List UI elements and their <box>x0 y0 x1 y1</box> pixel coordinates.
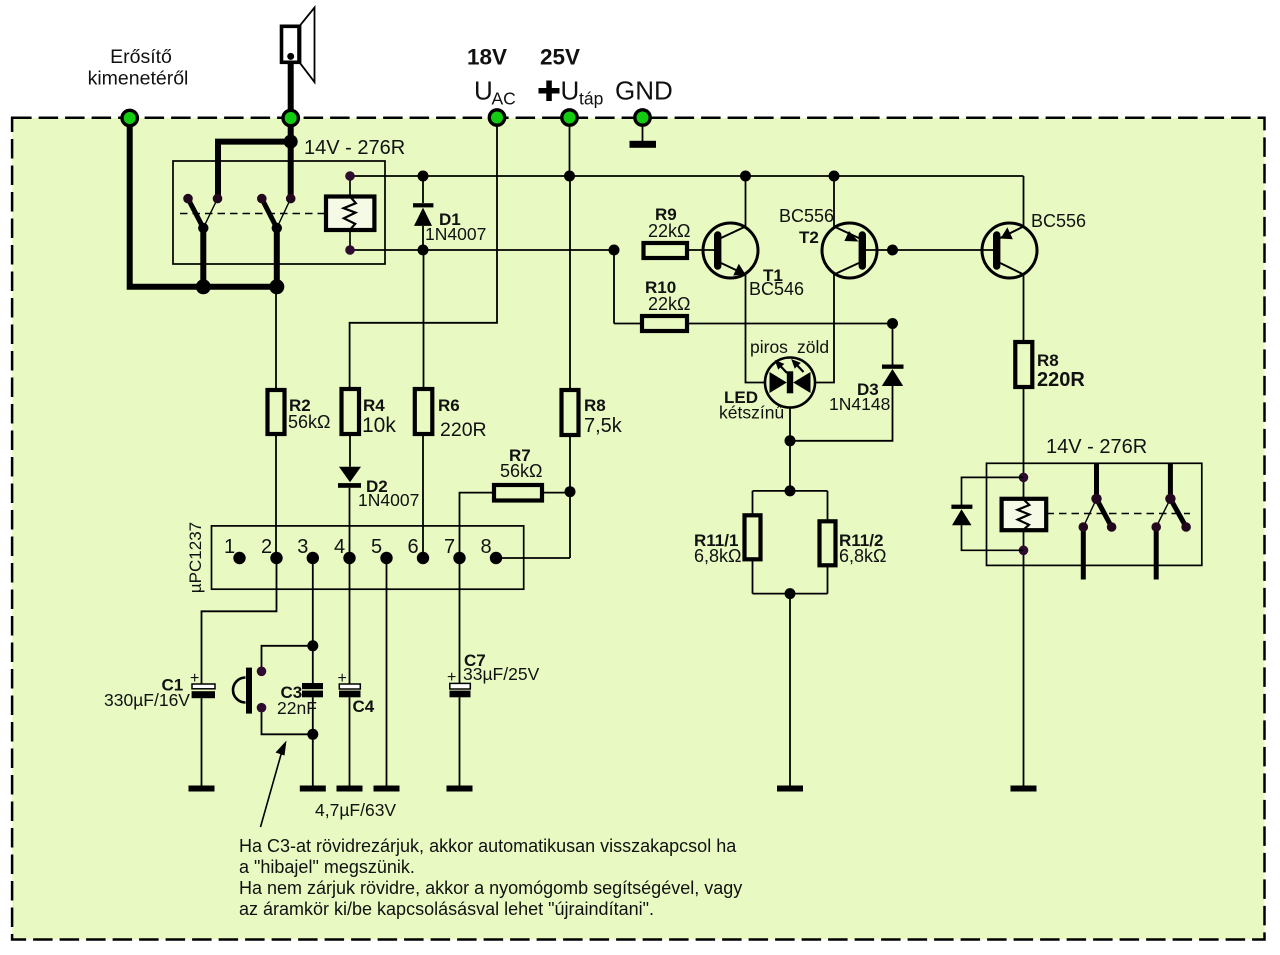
node R11 top <box>785 485 796 496</box>
svg-text:piros: piros <box>750 337 788 357</box>
node D3 top <box>887 318 898 329</box>
svg-text:táp: táp <box>579 89 603 109</box>
svg-text:10k: 10k <box>362 414 396 437</box>
ground LED net <box>777 786 803 792</box>
svg-text:14V - 276R: 14V - 276R <box>304 137 405 159</box>
svg-text:Ha nem zárjuk rövidre, akkor a: Ha nem zárjuk rövidre, akkor a nyomógomb… <box>239 878 742 898</box>
wire coil1 bottom lead <box>349 230 351 250</box>
diode D2 1N4007 <box>338 467 419 510</box>
svg-text:2: 2 <box>261 536 272 558</box>
svg-text:µPC1237: µPC1237 <box>186 522 205 593</box>
switch SW1a arm <box>188 199 203 228</box>
resistor R8b 7.5k <box>562 390 579 435</box>
wire R11 bottom branch <box>753 593 828 595</box>
pin 7 <box>453 552 465 564</box>
svg-text:22nF: 22nF <box>277 698 317 718</box>
wire coil1 bottom rail <box>350 249 614 251</box>
relay RE1 box <box>173 161 385 264</box>
svg-text:R4: R4 <box>363 396 385 415</box>
wire R7 left lead <box>460 493 495 558</box>
svg-text:330µF/16V: 330µF/16V <box>104 690 190 710</box>
switch SW1a contacts <box>183 194 193 204</box>
pin 4 <box>343 552 355 564</box>
wire T2 base to node <box>866 249 893 251</box>
wire R7 right lead <box>542 492 570 494</box>
node coil2 top <box>1019 473 1029 483</box>
ground C1 <box>189 786 215 792</box>
resistor R9 <box>644 243 688 258</box>
svg-text:BC556: BC556 <box>779 206 834 226</box>
resistor R4 <box>342 389 360 434</box>
wire R11/1 leads <box>752 491 754 515</box>
svg-text:3: 3 <box>297 536 308 558</box>
svg-text:1N4007: 1N4007 <box>358 490 419 510</box>
switch SW1b arm <box>262 199 277 228</box>
relay RE2 coil box <box>1002 499 1047 530</box>
pin 8 <box>490 552 502 564</box>
terminal E GND <box>635 110 650 125</box>
relay RE1 coil box <box>326 197 374 231</box>
speaker LS1 <box>282 8 315 83</box>
switch SW2a <box>1079 463 1117 579</box>
node button bottom <box>307 729 318 740</box>
svg-text:56kΩ: 56kΩ <box>288 412 330 432</box>
wire R11 top branch <box>753 490 828 492</box>
wire T2 emitter up <box>833 176 835 227</box>
wire pin8 link <box>496 557 570 559</box>
svg-text:8: 8 <box>480 536 491 558</box>
transistor T1 BC546 <box>703 223 804 299</box>
wire LED net to ground <box>789 594 791 786</box>
wire UAC drop <box>350 118 497 390</box>
resistor R11/2 <box>820 521 836 565</box>
node D1 bottom <box>418 245 429 256</box>
wire coil1 top lead <box>349 176 351 197</box>
node Utap rail <box>564 171 575 182</box>
wire button bottom link <box>262 708 313 735</box>
wire T1 collector up <box>745 176 747 227</box>
wire T3 collector to R8 <box>1023 275 1025 343</box>
node R9 R10 left <box>609 245 620 256</box>
svg-text:1: 1 <box>224 536 235 558</box>
svg-text:4,7µF/63V: 4,7µF/63V <box>315 800 396 820</box>
wire D2 to pin4 <box>349 488 351 558</box>
wire T3 emitter up corner <box>1023 176 1025 227</box>
svg-text:BC546: BC546 <box>749 279 804 299</box>
wire sw2 pivot drop <box>274 228 280 287</box>
svg-text:7,5k: 7,5k <box>584 415 623 437</box>
wire R11/2 leads <box>827 491 829 521</box>
wire R6 to pin6 <box>422 434 424 558</box>
wire R4 to D2 <box>349 434 351 467</box>
junction speaker <box>284 135 298 149</box>
relay RE1 coil zigzag <box>344 197 356 230</box>
svg-text:1N4007: 1N4007 <box>425 224 486 244</box>
wire C4 to ground <box>349 697 351 785</box>
diode D3 1N4148 <box>829 365 904 415</box>
terminal A <box>122 110 137 125</box>
wire sw1 pivot drop <box>200 228 206 287</box>
resistor R10 <box>642 316 687 331</box>
wire D1 top <box>422 176 424 203</box>
node D1 top <box>418 171 429 182</box>
LED bicolor <box>719 337 829 423</box>
wire node junction down <box>613 250 615 324</box>
switch SW1a throw <box>203 199 217 228</box>
wire R10 left <box>614 323 642 325</box>
wire Utap to R8 <box>569 176 571 390</box>
wire relay2 coil to ground <box>1023 531 1025 786</box>
node R11 bottom <box>785 588 796 599</box>
svg-text:14V - 276R: 14V - 276R <box>1046 436 1147 458</box>
wire D3 anode down <box>790 386 893 441</box>
svg-text:6,8kΩ: 6,8kΩ <box>694 546 741 566</box>
wire pin5 to ground <box>386 558 388 786</box>
svg-text:AC: AC <box>492 89 516 109</box>
resistor R11/1 <box>745 515 761 559</box>
capacitor C7 <box>447 651 540 697</box>
diode D4 freewheel <box>951 477 1023 550</box>
wire R8b bottom to R7 node <box>569 435 571 558</box>
node coil2 bottom <box>1019 546 1029 556</box>
push button S1 <box>233 667 266 714</box>
capacitor C4 <box>338 670 375 716</box>
terminal D Utap <box>562 110 577 125</box>
label +Utap <box>539 88 560 94</box>
wire button top link <box>262 646 313 672</box>
pin 5 <box>380 552 392 564</box>
svg-text:R8: R8 <box>584 396 606 415</box>
wire terminal A down <box>130 118 277 287</box>
svg-text:6,8kΩ: 6,8kΩ <box>839 546 886 566</box>
wire D1 node to R6 <box>423 250 425 389</box>
wire R10 right rail <box>687 323 893 325</box>
terminal B <box>283 110 298 125</box>
junction big A <box>196 279 211 294</box>
wire pin3 to C3 <box>312 558 314 683</box>
node R7 right <box>565 486 576 497</box>
svg-text:56kΩ: 56kΩ <box>500 461 542 481</box>
wire T1 emitter down to LED <box>746 275 766 383</box>
arrow to C3 note <box>261 741 287 828</box>
relay RE2 box <box>987 463 1202 565</box>
svg-text:R6: R6 <box>438 396 460 415</box>
node T2 emitter rail <box>829 171 840 182</box>
wire node to T3 base <box>893 249 994 251</box>
wire thick top U <box>218 142 291 199</box>
junction big B <box>269 279 284 294</box>
wire pin2 to C1 <box>202 558 277 684</box>
wire D1 bottom <box>422 226 424 250</box>
svg-text:C4: C4 <box>353 697 375 716</box>
svg-text:25V: 25V <box>540 45 580 70</box>
resistor R2 <box>268 390 285 434</box>
pin 3 <box>307 552 319 564</box>
wire GND terminal drop <box>642 118 644 141</box>
wire node to D3 <box>892 324 894 366</box>
wire C7 to ground <box>459 697 461 785</box>
pin 2 <box>270 552 282 564</box>
svg-text:GND: GND <box>615 76 673 106</box>
node coil1 top <box>345 171 355 181</box>
wire pin4 to C4 <box>349 558 351 684</box>
relay RE1 actuation dashed line <box>180 213 326 215</box>
wire R9 right to T1 base <box>687 249 714 251</box>
svg-text:a "hibajel" megszünik.: a "hibajel" megszünik. <box>239 857 415 877</box>
svg-text:U: U <box>474 76 493 106</box>
svg-text:zöld: zöld <box>797 337 829 357</box>
node coil1 bottom <box>345 245 355 255</box>
pin 1 <box>233 552 245 564</box>
ground C3 <box>300 786 326 792</box>
wire C1 to ground <box>201 698 203 785</box>
relay RE2 actuation dashed line <box>1047 513 1191 515</box>
wire Utap drop <box>569 118 571 176</box>
node button top <box>307 640 318 651</box>
wire R8c to relay2 coil <box>1023 387 1025 498</box>
op-amp U1 uPC1237 box <box>212 526 524 589</box>
ground C4 <box>337 786 363 792</box>
switch SW2b <box>1151 463 1191 579</box>
wire T2 collector down to LED <box>815 275 834 383</box>
svg-text:az áramkör ki/be kapcsolásásva: az áramkör ki/be kapcsolásásval lehet "ú… <box>239 899 654 919</box>
transistor T3 BC556 <box>982 211 1086 278</box>
resistor R7 <box>494 485 542 501</box>
svg-text:220R: 220R <box>1037 369 1085 391</box>
svg-text:R8: R8 <box>1037 351 1059 370</box>
svg-text:4: 4 <box>334 536 345 558</box>
svg-text:kétszínű: kétszínű <box>719 403 784 423</box>
node LED bottom <box>785 435 796 446</box>
svg-text:Ha C3-at rövidrezárjuk, akkor: Ha C3-at rövidrezárjuk, akkor automatiku… <box>239 836 737 856</box>
wire R2 top <box>275 287 277 390</box>
capacitor C1 <box>104 670 215 710</box>
svg-text:6: 6 <box>407 536 418 558</box>
wire C3 to ground <box>312 697 314 785</box>
svg-text:T2: T2 <box>799 228 819 247</box>
wire speaker to terminal B <box>288 56 294 141</box>
relay RE2 coil zigzag <box>1018 499 1030 529</box>
svg-text:18V: 18V <box>467 45 507 70</box>
svg-text:U: U <box>561 76 580 106</box>
svg-text:220R: 220R <box>440 419 487 441</box>
resistor R6 <box>415 389 433 434</box>
switch SW1b throw <box>277 199 291 228</box>
svg-text:22kΩ: 22kΩ <box>648 294 690 314</box>
node T1 collector rail <box>740 171 751 182</box>
switch SW1b contacts <box>257 194 267 204</box>
ground C7 <box>447 786 473 792</box>
wire top rail 14V <box>350 175 1024 177</box>
ground relay2 <box>1011 786 1037 792</box>
ground symbol GND terminal <box>630 141 657 148</box>
svg-text:kimenetéről: kimenetéről <box>88 68 189 90</box>
pin 6 <box>417 552 429 564</box>
resistor R8c 220R <box>1015 342 1032 387</box>
node T2 base <box>887 245 898 256</box>
ground pin5 <box>374 786 400 792</box>
svg-text:5: 5 <box>371 536 382 558</box>
terminal C UAC <box>489 110 504 125</box>
transistor T2 BC556 <box>779 206 877 278</box>
svg-text:1N4148: 1N4148 <box>829 394 890 414</box>
note paragraph <box>239 836 742 919</box>
wire pin7 to C7 <box>459 558 461 684</box>
svg-text:22kΩ: 22kΩ <box>648 221 690 241</box>
wire LED bottom <box>789 408 791 491</box>
diode D1 1N4007 <box>413 203 486 244</box>
svg-text:BC556: BC556 <box>1031 211 1086 231</box>
svg-text:33µF/25V: 33µF/25V <box>463 664 540 684</box>
svg-text:7: 7 <box>444 536 455 558</box>
capacitor C3 <box>277 683 323 718</box>
svg-text:Erősítő: Erősítő <box>110 46 172 68</box>
wire R2 bottom to pin2 <box>275 434 277 558</box>
wire terminal B down to contact <box>288 142 294 199</box>
